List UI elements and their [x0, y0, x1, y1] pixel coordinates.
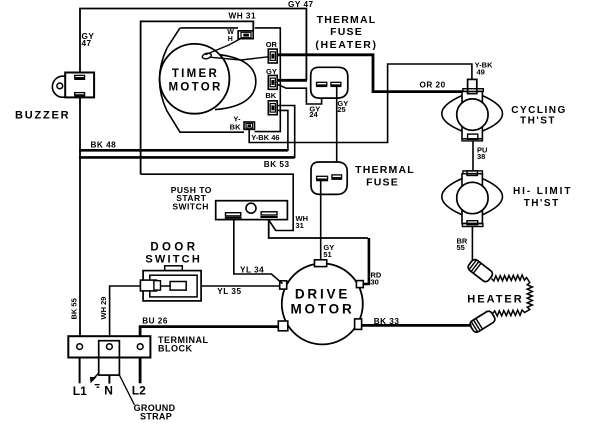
svg-text:DRIVE: DRIVE	[295, 287, 350, 302]
timer cam follower curve	[211, 54, 256, 110]
label HI- LIMIT TH'ST	[513, 186, 572, 209]
wire L2 lead	[139, 358, 142, 384]
svg-text:24: 24	[309, 110, 318, 119]
label RD 30	[371, 271, 382, 287]
svg-text:38: 38	[477, 152, 485, 161]
label W H	[227, 29, 234, 43]
svg-text:GY 47: GY 47	[288, 0, 314, 9]
label GY 24	[309, 104, 320, 119]
label THERMAL FUSE (HEATER)	[315, 14, 377, 51]
svg-text:BU 26: BU 26	[142, 317, 168, 326]
terminal block TB	[68, 336, 150, 357]
wire Y-BK 46 to cycling thermostat	[249, 64, 472, 143]
wire GY 51 lower fuse to drive motor	[320, 180, 322, 260]
wire RD 30 push-to-start to drive motor	[269, 220, 369, 284]
svg-text:BK 53: BK 53	[264, 160, 290, 169]
timer cam pivot	[202, 52, 212, 59]
thermal fuse TF2	[311, 162, 347, 194]
svg-text:WH 31: WH 31	[229, 12, 257, 21]
svg-text:(HEATER): (HEATER)	[315, 39, 377, 51]
svg-text:OR 20: OR 20	[420, 80, 446, 89]
timer pointer to OR contact	[211, 57, 268, 60]
wire GY 25 to lower thermal fuse	[336, 86, 338, 175]
heater element E1 zigzag	[492, 275, 533, 316]
svg-text:OR: OR	[266, 40, 278, 49]
heater bottom plug	[469, 310, 497, 334]
timer cam plate	[160, 28, 245, 132]
label THERMAL FUSE lower	[355, 164, 415, 188]
ground strap pointer line	[119, 375, 134, 405]
wire WH 31 bottom run to push-to-start switch	[141, 174, 294, 230]
svg-text:MOTOR: MOTOR	[168, 81, 222, 93]
wire BK 48 timer BK contact to buzzer line	[79, 110, 288, 151]
svg-text:51: 51	[323, 250, 331, 259]
wire WH 29 terminal block to door switch	[110, 286, 141, 336]
buzzer BZ	[52, 73, 94, 98]
label BR 55	[457, 236, 468, 252]
wire GY 47 loop buzzer to timer GY contact	[80, 9, 307, 81]
door switch S2	[140, 266, 201, 301]
svg-text:HEATER: HEATER	[467, 293, 523, 305]
svg-text:GY: GY	[266, 67, 277, 76]
svg-text:H: H	[228, 36, 233, 43]
svg-text:30: 30	[371, 278, 379, 287]
svg-text:THERMAL: THERMAL	[317, 14, 377, 26]
svg-text:BK 55: BK 55	[70, 298, 79, 319]
svg-text:W: W	[227, 29, 234, 36]
wire WH 31 timer frame top and left	[141, 21, 254, 174]
cycling thermostat TS1	[442, 79, 503, 140]
push to start switch S1	[216, 201, 288, 220]
timer motor M1 circle	[160, 44, 230, 114]
svg-text:SWITCH: SWITCH	[145, 254, 202, 266]
ground symbol	[90, 373, 100, 387]
timer contact OR	[268, 49, 277, 63]
svg-text:Y-BK 46: Y-BK 46	[251, 133, 279, 142]
timer pointer to W-H contact	[206, 39, 241, 55]
label GY 47 left	[82, 32, 95, 48]
svg-text:L1: L1	[73, 384, 87, 398]
wire BK 33 drive motor to heater	[362, 324, 472, 327]
label GROUND STRAP	[134, 403, 176, 422]
svg-text:N: N	[104, 384, 113, 398]
label WH 31 at switch	[296, 214, 309, 230]
label Y- BK	[230, 115, 241, 132]
svg-text:FUSE: FUSE	[330, 26, 363, 38]
svg-text:47: 47	[82, 39, 92, 48]
svg-text:THERMAL: THERMAL	[355, 164, 415, 176]
timer contact W-H	[238, 31, 253, 39]
label TERMINAL BLOCK	[158, 335, 209, 354]
svg-text:YL 35: YL 35	[217, 287, 241, 296]
svg-text:TH'ST: TH'ST	[520, 116, 556, 127]
wire BR 55 hi-limit to heater	[471, 227, 473, 264]
svg-text:BK 33: BK 33	[374, 317, 400, 326]
ground strap	[99, 341, 120, 375]
wire GY 24 timer GY to thermal fuse heater	[277, 84, 321, 104]
wire YL 34 push-to-start to drive motor	[234, 220, 283, 284]
label TIMER MOTOR	[168, 68, 222, 94]
svg-text:49: 49	[477, 68, 485, 77]
svg-text:DOOR: DOOR	[150, 241, 198, 253]
wire WH 31 right leg to Y-BK contact	[255, 28, 281, 132]
svg-text:YL 34: YL 34	[240, 266, 264, 275]
drive motor M2	[278, 260, 363, 345]
timer contact BK	[268, 101, 277, 115]
hi-limit thermostat TS2	[442, 171, 503, 227]
svg-text:BUZZER: BUZZER	[15, 110, 70, 122]
svg-text:55: 55	[457, 243, 465, 252]
wire YL 35 door switch to drive motor	[157, 285, 280, 287]
label GY 25	[337, 99, 348, 114]
wire WH 31 stub to cam plate	[180, 27, 238, 29]
svg-text:CYCLING: CYCLING	[511, 105, 567, 116]
label DRIVE MOTOR	[291, 287, 355, 317]
timer contact Y-BK	[244, 122, 255, 129]
svg-text:BK: BK	[265, 91, 276, 100]
wire BK 53 timer BK contact to buzzer line	[79, 106, 295, 159]
thermal fuse heater TF1	[311, 67, 348, 98]
svg-text:WH 29: WH 29	[99, 297, 108, 320]
wire BK 55 buzzer to terminal block	[79, 97, 81, 336]
svg-text:MOTOR: MOTOR	[291, 302, 355, 317]
svg-text:HI- LIMIT: HI- LIMIT	[513, 186, 572, 197]
svg-text:STRAP: STRAP	[140, 412, 172, 422]
svg-text:BK: BK	[230, 122, 241, 131]
svg-text:BLOCK: BLOCK	[158, 343, 193, 353]
svg-text:SWITCH: SWITCH	[172, 202, 209, 212]
label PU 38	[477, 145, 487, 161]
wire PU 38 cycling to hi-limit	[472, 141, 474, 171]
label GY 51	[323, 243, 334, 259]
label CYCLING TH'ST	[511, 105, 567, 126]
svg-text:25: 25	[337, 105, 345, 114]
wire BU 26 terminal block to drive motor	[140, 327, 278, 337]
svg-text:L2: L2	[132, 384, 146, 398]
svg-text:31: 31	[296, 221, 304, 230]
wire L1 lead	[79, 358, 81, 384]
wire N lead	[108, 375, 110, 384]
svg-text:TIMER: TIMER	[172, 68, 219, 80]
label DOOR SWITCH	[145, 241, 202, 265]
heater top plug	[467, 258, 495, 283]
svg-text:BK 48: BK 48	[91, 140, 117, 149]
svg-text:TH'ST: TH'ST	[524, 198, 560, 209]
label PUSH TO START SWITCH	[171, 185, 212, 212]
label Y-BK 49	[475, 60, 494, 76]
timer contact GY	[268, 75, 277, 89]
svg-text:FUSE: FUSE	[366, 176, 399, 188]
wire OR 20 timer to cycling thermostat	[277, 55, 463, 92]
